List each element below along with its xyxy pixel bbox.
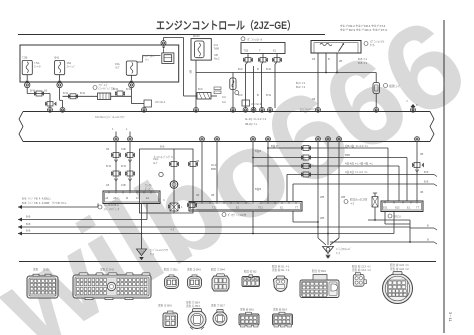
svg-text:ｴﾝｼﾞﾝｺﾝﾋﾟｭｰﾀ: ｴﾝｼﾞﾝｺﾝﾋﾟｭｰﾀ <box>104 207 120 211</box>
svg-text:黒色 ㊸ C13 ＊2: 黒色 ㊸ C13 ＊2 <box>352 268 371 272</box>
svg-text:ｲｸﾞﾆｯｼｮﾝｽｲｯﾁ: ｲｸﾞﾆｯｼｮﾝｽｲｯﾁ <box>247 37 263 41</box>
svg-text:B-B: B-B <box>26 222 31 226</box>
svg-text:15A: 15A <box>67 61 72 65</box>
svg-text:B-B（ソ）FB. 4. 4J30B：※7 FB. 8＊L: B-B（ソ）FB. 4. 4J30B：※7 FB. 8＊L <box>22 201 67 205</box>
svg-text:4B: 4B <box>211 193 214 197</box>
svg-text:E1: E1 <box>146 196 150 200</box>
svg-text:B-B: B-B <box>424 170 429 174</box>
svg-text:C: C <box>163 198 165 202</box>
svg-text:P: P <box>416 103 418 107</box>
svg-text:4B: 4B <box>196 193 199 197</box>
svg-text:照合 ② B44: 照合 ② B44 <box>211 268 225 272</box>
svg-text:黒色 ㊳ C24 ＊2: 黒色 ㊳ C24 ＊2 <box>390 267 409 271</box>
svg-text:3－11: 3－11 <box>448 312 452 321</box>
svg-text:1B: 1B <box>106 183 109 187</box>
svg-text:B-B: B-B <box>160 145 165 149</box>
svg-text:B: B <box>257 93 259 97</box>
svg-text:J/C No.4: J/C No.4 <box>155 100 166 104</box>
svg-text:10B: 10B <box>121 147 126 151</box>
svg-text:/1-7: /1-7 <box>153 161 158 165</box>
svg-text:B-W: B-W <box>121 164 127 168</box>
svg-text:10B: 10B <box>121 183 126 187</box>
svg-text:E1: E1 <box>273 49 277 53</box>
svg-text:MAIN: MAIN <box>193 34 200 38</box>
svg-text:T2J: T2J <box>212 206 217 210</box>
svg-text:ﾊﾙﾌﾟ: ﾊﾙﾌﾟ <box>115 66 120 70</box>
svg-text:1B: 1B <box>106 147 109 151</box>
svg-text:B-W: B-W <box>126 87 132 91</box>
svg-text:T1B: T1B <box>244 49 249 53</box>
svg-text:1B: 1B <box>44 89 47 93</box>
svg-text:4B-4Q ＊L: 4B-4Q ＊L <box>245 122 258 126</box>
svg-text:エンジンコントロール（2JZ−GE）: エンジンコントロール（2JZ−GE） <box>156 19 296 32</box>
svg-text:B-W: B-W <box>266 93 272 97</box>
svg-text:B: B <box>328 57 330 61</box>
svg-text:B-B: B-B <box>26 229 31 233</box>
svg-text:E02: E02 <box>395 206 400 210</box>
svg-text:B-R: B-R <box>238 67 243 71</box>
svg-text:照合 ㊷ B2: 照合 ㊷ B2 <box>244 270 257 274</box>
svg-text:+B1: +B1 <box>113 196 118 200</box>
svg-text:B-B ＊1: B-B ＊1 <box>358 57 368 61</box>
svg-text:B-W: B-W <box>266 67 272 71</box>
svg-text:TT: TT <box>295 206 299 210</box>
svg-text:4B: 4B <box>196 159 199 163</box>
svg-text:E2: E2 <box>236 206 240 210</box>
svg-text:照合 ㊶ B24: 照合 ㊶ B24 <box>312 269 326 273</box>
svg-text:WB: WB <box>320 216 324 220</box>
svg-text:WB: WB <box>341 195 345 199</box>
svg-text:4□4: 4□4 <box>214 43 219 47</box>
svg-text:7W8: 7W8 <box>214 47 220 51</box>
svg-text:黒色 ④ B41: 黒色 ④ B41 <box>158 304 172 308</box>
svg-text:4L-4Q ＊L 0-0 ＊3: 4L-4Q ＊L 0-0 ＊3 <box>245 117 267 121</box>
svg-text:WB: WB <box>320 195 324 199</box>
svg-text:ｽﾄｰﾚｯｼﾞ: ｽﾄｰﾚｯｼﾞ <box>67 65 76 69</box>
svg-text:B41: B41 <box>55 56 60 60</box>
svg-text:M: M <box>126 196 128 200</box>
svg-text:TT: TT <box>416 206 420 210</box>
svg-text:TT: TT <box>192 206 196 210</box>
svg-text:照合(ﾁｪｯｸ)ｺﾈｸﾀ: 照合(ﾁｪｯｸ)ｺﾈｸﾀ <box>350 198 368 202</box>
svg-text:TE1: TE1 <box>258 206 263 210</box>
svg-text:4B: 4B <box>420 152 423 156</box>
svg-text:B3B: B3B <box>345 153 350 157</box>
svg-text:7.5A: 7.5A <box>34 61 40 65</box>
svg-text:照合 ② B11: 照合 ② B11 <box>164 268 178 272</box>
svg-text:黒色 ㊵ B14: 黒色 ㊵ B14 <box>273 308 287 312</box>
svg-text:＊3: ＊3 <box>170 228 175 232</box>
svg-text:B-R: B-R <box>198 87 203 91</box>
svg-text:ﾎﾟﾝﾌﾟ: ﾎﾟﾝﾌﾟ <box>145 187 151 191</box>
svg-text:B-W: B-W <box>80 91 86 95</box>
svg-text:0-0: 0-0 <box>222 95 226 99</box>
svg-text:ﾌｭｰｴﾙ: ﾌｭｰｴﾙ <box>145 184 152 187</box>
svg-text:B白-B: B白-B <box>271 144 278 148</box>
svg-text:J/C No.3: J/C No.3 <box>251 102 262 106</box>
svg-text:4B: 4B <box>420 190 423 194</box>
svg-text:白B-4白 ＊L 0-0 ＊L: 白B-4白 ＊L 0-0 ＊L <box>345 144 369 148</box>
svg-text:B0B: B0B <box>211 167 216 171</box>
svg-text:ｸｰﾙﾄﾞｽﾀｰﾄ: ｸｰﾙﾄﾞｽﾀｰﾄ <box>143 54 155 58</box>
svg-text:ﾀﾞｲｱｸﾞﾉｰｼｽｺﾈｸﾀ: ﾀﾞｲｱｸﾞﾉｰｼｽｺﾈｸﾀ <box>228 213 247 217</box>
svg-text:B-O ＊1: B-O ＊1 <box>296 81 306 85</box>
svg-text:2B: 2B <box>339 59 342 63</box>
svg-text:B-B ＊3: B-B ＊3 <box>358 61 368 65</box>
svg-text:C/C No.1 ｴﾝｼﾞﾝﾙｰﾑﾒｲﾝﾜｲﾔ: C/C No.1 ｴﾝｼﾞﾝﾙｰﾑﾒｲﾝﾜｲﾔ <box>95 115 125 119</box>
svg-text:E1: E1 <box>407 206 411 210</box>
svg-text:B-B: B-B <box>424 180 429 184</box>
svg-text:黒色 ③ B41: 黒色 ③ B41 <box>187 268 201 272</box>
svg-text:B-W: B-W <box>63 91 69 95</box>
svg-text:1B: 1B <box>312 97 315 101</box>
svg-text:B-W: B-W <box>113 87 119 91</box>
svg-text:B-W: B-W <box>30 89 36 93</box>
svg-text:B-B（ハ）FB. 4. 4J55(L): B-B（ハ）FB. 4. 4J55(L) <box>22 197 51 201</box>
svg-text:40-40: 40-40 <box>211 163 218 167</box>
svg-text:B: B <box>427 238 429 242</box>
svg-text:ｱｲﾄﾞﾙｰﾅ: ｱｲﾄﾞﾙｰﾅ <box>99 83 109 87</box>
svg-text:ｲｸﾞﾆｯｼｮﾝｺｲﾙ: ｲｸﾞﾆｯｼｮﾝｺｲﾙ <box>370 40 385 44</box>
svg-text:照合 ㊳ C24 ＊1: 照合 ㊳ C24 ＊1 <box>390 263 409 267</box>
svg-text:照合 ㊹ D1 ＊1: 照合 ㊹ D1 ＊1 <box>272 265 290 269</box>
svg-text:B: B <box>257 67 259 71</box>
svg-text:7ECU: 7ECU <box>394 215 401 219</box>
svg-text:※②:⁴ᴶ FR.3 ※④:⁴ᴶ FR.4: ※③:²ᴶ F: ※②:⁴ᴶ FR.3 ※④:⁴ᴶ FR.4: ※③:²ᴶ FT.4: <box>340 28 388 32</box>
svg-text:+B: +B <box>105 196 109 200</box>
svg-text:黒色 ⑥ B14: 黒色 ⑥ B14 <box>186 304 200 308</box>
svg-text:黒色 ㊵ B41: 黒色 ㊵ B41 <box>240 308 254 312</box>
svg-text:15A: 15A <box>115 62 120 66</box>
svg-text:B-R ＊2: B-R ＊2 <box>296 85 306 89</box>
svg-text:黒色 ㊹ D1 ＊2: 黒色 ㊹ D1 ＊2 <box>272 268 290 272</box>
svg-text:B-B: B-B <box>26 215 31 219</box>
svg-text:4白-4白 ＊L 4白-4白 ＊L: 4白-4白 ＊L 4白-4白 ＊L <box>345 162 374 166</box>
svg-text:茶色 ⑤ B14: 茶色 ⑤ B14 <box>186 301 200 305</box>
svg-text:C1(L: C1(L <box>153 157 159 161</box>
svg-text:4白-4白 ＊L 0-0 ＊L: 4白-4白 ＊L 0-0 ＊L <box>345 170 368 174</box>
svg-text:1B: 1B <box>312 57 315 61</box>
svg-text:0-0: 0-0 <box>222 100 226 104</box>
svg-text:B: B <box>427 224 429 228</box>
svg-text:黒色 Ⓔ D41: 黒色 Ⓔ D41 <box>100 268 115 272</box>
svg-text:No.2: No.2 <box>214 57 220 61</box>
svg-text:7.5B: 7.5B <box>22 56 28 60</box>
svg-text:Ⓓ D1: Ⓓ D1 <box>43 268 50 272</box>
svg-text:＊3: ＊3 <box>350 202 355 206</box>
svg-text:FC: FC <box>136 196 140 200</box>
svg-text:電流ﾋｭｰｽﾞ: 電流ﾋｭｰｽﾞ <box>389 84 401 88</box>
svg-text:B-W: B-W <box>106 164 112 168</box>
svg-text:黒色: 黒色 <box>33 268 39 272</box>
svg-text:ｱﾝﾒｰﾀ: ｱﾝﾒｰﾀ <box>34 65 41 69</box>
svg-text:黒色 ⑦ B17: 黒色 ⑦ B17 <box>211 304 225 308</box>
svg-text:B白B: B白B <box>255 149 261 153</box>
svg-text:ｾﾝｻｰ: ｾﾝｻｰ <box>370 43 376 47</box>
svg-text:ｲﾝﾃｰｸﾏﾆﾎｰﾙﾄﾞ: ｲﾝﾃｰｸﾏﾆﾎｰﾙﾄﾞ <box>336 247 352 251</box>
svg-text:照合 ㊸ C13 ＊1: 照合 ㊸ C13 ＊1 <box>352 265 371 269</box>
svg-text:TA-JA30J8-A: TA-JA30J8-A <box>104 203 120 207</box>
svg-text:B白B: B白B <box>255 187 261 191</box>
svg-text:J/B: J/B <box>214 53 218 57</box>
svg-text:E01: E01 <box>383 206 388 210</box>
svg-text:ｴﾝｼﾞﾝﾙｰﾑﾒｲﾝﾜｲﾔ: ｴﾝｼﾞﾝﾙｰﾑﾒｲﾝﾜｲﾔ <box>150 248 169 252</box>
svg-text:E1: E1 <box>280 206 284 210</box>
